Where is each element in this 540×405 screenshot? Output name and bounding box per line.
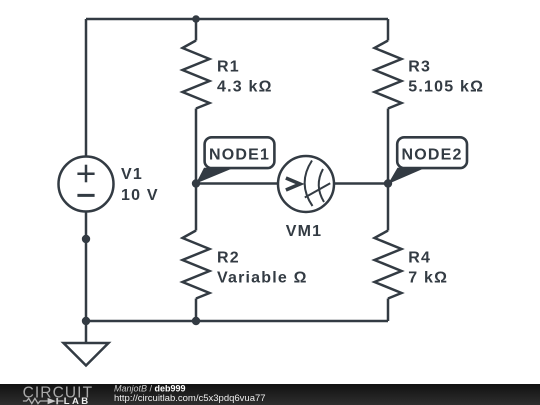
svg-text:LAB: LAB [64,396,91,405]
label R2 value [217,249,308,286]
junction dot bottom left [82,317,90,325]
label V1 value [121,166,159,204]
label R4 value [408,249,448,286]
junction dot NODE2 [384,179,392,187]
wire bottom rail [86,320,388,323]
label R1 value [217,59,273,96]
ground [64,343,109,366]
svg-text:R1: R1 [217,59,240,76]
svg-text:4.3 kΩ: 4.3 kΩ [217,79,273,96]
CircuitLab logo [23,384,94,405]
svg-text:VM1: VM1 [286,223,323,240]
junction dot bottom R2 [192,317,200,325]
svg-text:V1: V1 [121,166,143,183]
svg-text:R2: R2 [217,249,240,266]
voltmeter VM1 [278,156,334,212]
resistor R3 [375,41,402,109]
junction dot NODE1 [192,179,200,187]
svg-text:ManjotB / deb999: ManjotB / deb999 [114,383,186,393]
resistor R4 [375,231,402,299]
label VM1 [286,223,323,240]
NODE1 flag [205,137,275,168]
svg-text:R3: R3 [408,59,431,76]
wire middle left (NODE1 to VM1) [196,182,278,185]
svg-text:http://circuitlab.com/c5x3pdq6: http://circuitlab.com/c5x3pdq6vua77 [114,393,266,404]
svg-text:R4: R4 [408,249,431,266]
svg-text:5.105 kΩ: 5.105 kΩ [408,79,484,96]
footer bar [0,384,540,405]
wire middle right (VM1 to NODE2) [334,182,388,185]
wire top rail [86,18,388,21]
svg-text:7 kΩ: 7 kΩ [408,270,448,287]
resistor R2 [183,231,210,299]
junction dot top (node A) [192,15,200,23]
wire left rail upper [85,19,88,157]
junction dot V1 negative lead [82,235,90,243]
svg-text:10 V: 10 V [121,187,159,204]
resistor R1 [183,41,210,109]
wire R4 branch (x=388, NODE2 to bottom rail) [387,184,390,322]
NODE2 tail [388,168,426,184]
voltage source V1 [59,157,114,212]
attribution text [114,383,266,404]
svg-text:NODE2: NODE2 [402,147,463,164]
NODE2 flag [397,137,467,168]
label R3 value [408,59,484,96]
wire R3 branch (x=388, top rail to NODE2) [387,19,390,184]
wire left rail lower [85,212,88,322]
wire ground lead [85,321,88,343]
NODE1 tail [196,168,234,184]
wire R1 branch (x=196, top rail to NODE1) [195,19,198,184]
svg-text:Variable Ω: Variable Ω [217,270,308,287]
wire R2 branch (x=196, NODE1 to bottom rail) [195,184,198,322]
svg-text:NODE1: NODE1 [209,147,270,164]
